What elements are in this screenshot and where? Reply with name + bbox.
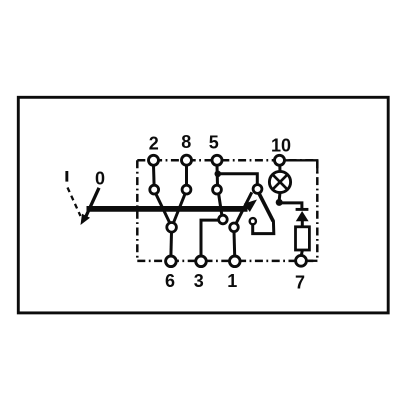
svg-text:1: 1 [227,271,237,291]
svg-text:7: 7 [295,273,305,293]
svg-text:6: 6 [165,271,175,291]
svg-text:3: 3 [194,271,204,291]
svg-text:8: 8 [181,132,191,152]
svg-text:2: 2 [149,133,159,153]
svg-text:5: 5 [209,133,219,153]
svg-text:10: 10 [271,136,291,156]
svg-text:0: 0 [95,169,105,189]
